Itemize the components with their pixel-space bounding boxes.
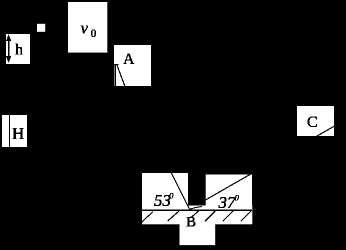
ground hatch 5: [223, 211, 233, 221]
ground hatch 6: [241, 211, 251, 221]
wall line in H box: [9, 115, 11, 147]
ground hatch 1: [142, 212, 153, 223]
svg-text:0: 0: [235, 193, 240, 203]
trajectory B to C (rising line, 37 deg): [202, 126, 334, 202]
svg-text:C: C: [307, 114, 318, 131]
trajectory A to B (falling line, 53 deg): [117, 65, 190, 210]
svg-text:0: 0: [169, 191, 174, 201]
ground line: [142, 209, 252, 211]
svg-text:0: 0: [91, 28, 97, 40]
label box h: [6, 34, 30, 64]
label box A: [114, 45, 151, 86]
ground hatch 3: [191, 211, 199, 218]
label box H: [2, 115, 27, 147]
bounce curve at B: [190, 207, 203, 210]
small white square: [37, 24, 45, 32]
label box C: [297, 106, 334, 136]
svg-text:A: A: [123, 51, 135, 68]
svg-text:ν: ν: [81, 19, 89, 38]
svg-text:h: h: [15, 42, 23, 59]
cliff edge horizontal tick at A: [114, 63, 119, 65]
label box 53deg: [142, 173, 188, 210]
label box 37deg: [206, 175, 252, 211]
svg-text:B: B: [186, 215, 196, 231]
ground strip: [142, 206, 252, 225]
label box v0: [68, 2, 107, 53]
svg-text:H: H: [12, 124, 24, 143]
dimension arrow h (double-headed vertical): [6, 34, 11, 63]
ground hatch 4: [205, 211, 215, 221]
label box B: [180, 224, 216, 246]
cliff edge vertical wall line at A: [114, 64, 116, 86]
ground hatch 2: [168, 211, 179, 221]
